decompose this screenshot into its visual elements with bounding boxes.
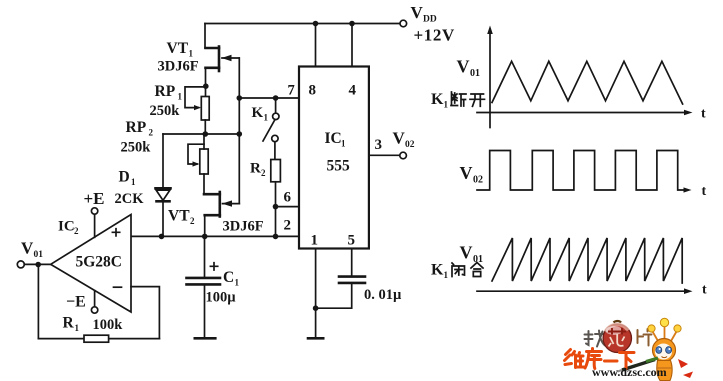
terminal V02 bbox=[400, 152, 407, 159]
svg-text:R: R bbox=[250, 161, 261, 177]
wire: V01 node down to R1 row bbox=[37, 264, 39, 338]
node: VT2 source / C1 top bbox=[202, 234, 208, 240]
svg-text:250k: 250k bbox=[150, 103, 181, 119]
svg-text:V: V bbox=[460, 243, 473, 263]
svg-text:1: 1 bbox=[444, 270, 449, 280]
svg-text:−E: −E bbox=[66, 294, 86, 311]
svg-text:01: 01 bbox=[470, 68, 480, 79]
wire: RP1 bottom to junction row bbox=[204, 120, 206, 134]
svg-text:6: 6 bbox=[284, 190, 292, 206]
wire: feedback row under op-amp bbox=[38, 338, 159, 340]
svg-text:5G28C: 5G28C bbox=[76, 254, 123, 271]
watermark text: ku (warehouse) bbox=[585, 349, 602, 369]
svg-text:1: 1 bbox=[178, 92, 183, 102]
axis X bbox=[477, 290, 687, 292]
capacitor C2 0.01u on pin 5 bbox=[316, 249, 402, 309]
capacitor C1 100u electrolytic bbox=[187, 236, 240, 336]
wire: gate bus from VT1 gate to VT2 gate bbox=[238, 58, 240, 204]
svg-text:K: K bbox=[431, 262, 444, 279]
svg-text:1: 1 bbox=[311, 233, 319, 249]
waveform panel 2: V02 square wave bbox=[460, 151, 707, 200]
switch K1 bbox=[252, 98, 279, 142]
svg-text:V: V bbox=[393, 129, 406, 148]
svg-text:K: K bbox=[431, 91, 444, 108]
diode D1 2CK bbox=[115, 134, 171, 236]
svg-text:www.dzsc.com: www.dzsc.com bbox=[592, 365, 667, 379]
svg-text:02: 02 bbox=[405, 140, 415, 150]
mascot head bbox=[653, 339, 676, 362]
svg-text:1: 1 bbox=[189, 49, 194, 59]
svg-text:100µ: 100µ bbox=[206, 290, 237, 306]
svg-text:8: 8 bbox=[309, 83, 317, 99]
antenna ball left bbox=[648, 325, 655, 332]
mascot hand red bbox=[678, 359, 688, 368]
axis Y bbox=[489, 31, 491, 128]
node: gate bus / pin7 row bbox=[237, 95, 243, 101]
wire: junction row (RP1/RP2/D1/gate line) bbox=[163, 133, 239, 135]
wire: main node row (opamp + input, D1, C1, pin2) bbox=[131, 235, 299, 237]
watermark logo group (dzsc.com) bbox=[565, 318, 694, 380]
svg-text:01: 01 bbox=[34, 250, 44, 260]
mascot eye left bbox=[656, 347, 662, 354]
watermark text: xia (down) bbox=[620, 353, 635, 369]
terminal -E supply of op-amp bbox=[94, 291, 96, 307]
svg-text:K: K bbox=[252, 105, 264, 121]
svg-text:V: V bbox=[457, 57, 470, 77]
svg-text:+E: +E bbox=[84, 189, 105, 208]
resistor R2 bbox=[250, 142, 280, 182]
antenna ball right bbox=[674, 325, 681, 332]
wire: rail corner down to VT1 drain bbox=[204, 24, 206, 49]
mascot belt bbox=[657, 367, 672, 369]
node: rail junction to pin 4 bbox=[349, 21, 355, 27]
svg-text:1: 1 bbox=[341, 139, 346, 149]
svg-text:2CK: 2CK bbox=[115, 191, 145, 207]
svg-text:3DJ6F: 3DJ6F bbox=[158, 59, 199, 75]
svg-text:1: 1 bbox=[444, 100, 449, 110]
waveform panel 3: V01 sawtooth wave, K1 closed bbox=[431, 238, 707, 298]
wire: R2 bottom to pin6/pin2 bbox=[275, 182, 277, 237]
node: pin7 row / K1 branch bbox=[273, 95, 279, 101]
mascot mouth bbox=[662, 357, 668, 358]
label: kai (open) bbox=[470, 94, 485, 106]
svg-text:1: 1 bbox=[235, 278, 240, 288]
svg-text:4: 4 bbox=[349, 83, 357, 99]
svg-text:DD: DD bbox=[423, 15, 437, 25]
svg-text:2: 2 bbox=[284, 218, 292, 234]
node: pin1 / cap join bbox=[313, 305, 319, 311]
svg-text:0. 01µ: 0. 01µ bbox=[364, 287, 402, 303]
wire: inverting input wire and down bbox=[131, 287, 159, 339]
terminal +E supply of op-amp bbox=[94, 214, 96, 237]
mascot pen (dark) bbox=[622, 360, 655, 371]
watermark red chip logo circle bbox=[603, 321, 631, 352]
svg-text:1: 1 bbox=[131, 177, 136, 187]
wire: RP2 bottom to VT2 drain bbox=[203, 174, 205, 194]
svg-text:V: V bbox=[411, 3, 424, 22]
watermark char: zhao (find), outlined gray bbox=[585, 331, 606, 347]
resistor R1 100k bbox=[63, 315, 124, 343]
IC U1: 555 timer box bbox=[299, 67, 369, 249]
node: D1 bottom bbox=[159, 234, 165, 240]
wire: pin 6 stub bbox=[276, 206, 300, 208]
label: duan (broken) bbox=[451, 92, 466, 106]
svg-text:t: t bbox=[702, 184, 707, 199]
svg-text:D: D bbox=[119, 169, 130, 186]
svg-text:VT: VT bbox=[167, 40, 189, 57]
ground under C1 bbox=[195, 337, 216, 340]
wire: pin 4 to rail bbox=[351, 24, 353, 67]
mascot face bbox=[655, 344, 672, 360]
node: VT1 source / RP1 top / wiper bbox=[203, 83, 209, 89]
wire: pin 7 row to 555 bbox=[239, 97, 299, 99]
terminal VDD bbox=[400, 20, 407, 27]
svg-text:2: 2 bbox=[74, 226, 79, 236]
svg-text:02: 02 bbox=[473, 175, 483, 186]
watermark text: yi (one) bbox=[605, 360, 618, 363]
svg-text:2: 2 bbox=[261, 168, 266, 178]
watermark text: wei (dimension) bbox=[565, 350, 584, 368]
svg-text:1: 1 bbox=[75, 323, 80, 333]
resistor RP1 250k potentiometer bbox=[150, 83, 210, 120]
watermark mascot antennae bbox=[653, 326, 677, 341]
svg-text:3: 3 bbox=[375, 137, 383, 153]
svg-text:7: 7 bbox=[288, 83, 295, 99]
terminal V01 output bbox=[17, 261, 24, 268]
watermark char: pian (piece), outlined bbox=[638, 329, 652, 346]
waveform panel 1: V01 triangle wave, K1 open bbox=[431, 26, 706, 128]
sawtooth trace bbox=[492, 238, 682, 283]
op-amp U2 IC2 5G28C bbox=[51, 215, 131, 313]
svg-text:2: 2 bbox=[190, 216, 195, 226]
svg-text:5: 5 bbox=[348, 233, 356, 249]
svg-text:C: C bbox=[223, 269, 234, 286]
mascot eye right bbox=[666, 347, 672, 354]
svg-text:V: V bbox=[21, 239, 34, 258]
svg-text:VT: VT bbox=[168, 208, 190, 225]
mascot body bbox=[657, 361, 672, 381]
axis X bbox=[477, 112, 687, 114]
triangle waveform trace bbox=[492, 61, 683, 104]
wire: pin 1 down to ground bbox=[315, 249, 317, 337]
svg-text:t: t bbox=[702, 283, 707, 298]
svg-text:IC: IC bbox=[325, 130, 342, 147]
svg-text:100k: 100k bbox=[93, 317, 124, 333]
svg-text:+12V: +12V bbox=[414, 26, 455, 45]
svg-text:250k: 250k bbox=[121, 140, 152, 156]
svg-text:555: 555 bbox=[327, 158, 351, 175]
svg-text:RP: RP bbox=[126, 119, 147, 136]
svg-text:t: t bbox=[701, 107, 706, 122]
transistor Q VT2 (JFET 3DJ6F) bbox=[168, 192, 264, 235]
svg-text:RP: RP bbox=[155, 83, 176, 100]
resistor RP2 250k potentiometer bbox=[121, 119, 209, 174]
svg-text:R: R bbox=[63, 315, 75, 332]
svg-text:V: V bbox=[460, 163, 473, 183]
node: pin 6 tap bbox=[273, 204, 279, 210]
node: row / RP chain bbox=[203, 131, 209, 137]
wire: VT2 source down to main row bbox=[204, 215, 206, 236]
mascot foot red bbox=[683, 372, 693, 379]
transistor Q VT1 (JFET 3DJ6F) bbox=[158, 40, 240, 75]
antenna ball middle bbox=[660, 318, 668, 326]
svg-text:3DJ6F: 3DJ6F bbox=[223, 219, 264, 235]
label: bi (closed) bbox=[452, 263, 465, 277]
node: pin2 branch bbox=[273, 234, 279, 240]
svg-text:2: 2 bbox=[149, 128, 154, 138]
node: row / gate vertical bbox=[237, 131, 243, 137]
label: he (together) bbox=[471, 263, 483, 277]
svg-text:IC: IC bbox=[58, 219, 75, 235]
wire: VT1 source down to RP1 bbox=[205, 68, 207, 97]
svg-text:1: 1 bbox=[264, 113, 269, 123]
pen tip white bbox=[618, 370, 623, 372]
wire: pin 3 output bbox=[369, 154, 400, 156]
wire: pin 8 to rail bbox=[315, 24, 317, 67]
node: rail junction to pin 8 bbox=[313, 21, 319, 27]
wire: +12V top supply rail bbox=[205, 23, 400, 25]
ground under pin 1 bbox=[308, 337, 323, 340]
